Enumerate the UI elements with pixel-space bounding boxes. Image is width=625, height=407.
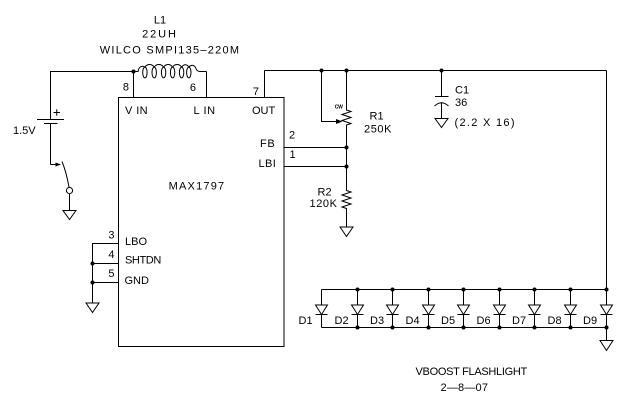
svg-text:R2: R2 xyxy=(318,187,332,199)
svg-text:LBI: LBI xyxy=(259,158,277,170)
svg-text:22UH: 22UH xyxy=(142,29,178,41)
wire pin 6 L IN xyxy=(206,72,208,98)
svg-text:5: 5 xyxy=(108,268,114,280)
svg-text:D8: D8 xyxy=(548,315,562,327)
resistor R2 xyxy=(342,167,351,228)
junction dot C1 top xyxy=(440,69,444,73)
svg-text:D5: D5 xyxy=(441,315,455,327)
ground under R2 xyxy=(340,227,353,237)
junction dot R1 top xyxy=(345,69,349,73)
op-amp U1 MAX1797 IC body xyxy=(119,98,285,347)
switch S1 xyxy=(51,162,73,194)
svg-text:36: 36 xyxy=(455,97,467,109)
svg-text:OUT: OUT xyxy=(252,105,276,117)
diode D5 xyxy=(458,288,470,330)
wiper arrowhead xyxy=(336,119,343,124)
wire LED bottom bus xyxy=(322,327,607,329)
wire pin 5 GND xyxy=(93,282,119,284)
wire pin 8 V IN xyxy=(133,72,135,98)
wire FB pin 2 xyxy=(284,147,347,149)
wire pin5 node to ground xyxy=(92,283,94,304)
junction dot wiper feed xyxy=(320,69,324,73)
junction dot pin5 node xyxy=(91,281,95,285)
svg-text:CW: CW xyxy=(335,105,343,111)
ground under C1 xyxy=(435,119,448,128)
inductor L1 xyxy=(134,65,207,78)
svg-text:D2: D2 xyxy=(335,315,349,327)
junction dot LBI node xyxy=(345,165,349,169)
wire pin 4 SHTDN xyxy=(93,263,119,265)
wire switch to ground xyxy=(69,194,71,211)
svg-text:1: 1 xyxy=(290,149,296,161)
svg-text:D4: D4 xyxy=(406,315,420,327)
svg-text:4: 4 xyxy=(108,249,114,261)
svg-text:L IN: L IN xyxy=(194,105,216,117)
svg-text:LBO: LBO xyxy=(125,236,147,248)
svg-text:1.5V: 1.5V xyxy=(13,125,36,137)
svg-text:V IN: V IN xyxy=(125,105,148,117)
resistor R1 potentiometer body xyxy=(342,71,351,148)
wire rail right side down to LED bus xyxy=(606,71,608,290)
svg-text:C1: C1 xyxy=(455,85,469,97)
capacitor C1 xyxy=(435,71,449,119)
wire LED bus to ground xyxy=(606,328,608,341)
diode D2 xyxy=(352,288,364,330)
svg-text:3: 3 xyxy=(108,230,114,242)
wire pin bus 4 to 5 xyxy=(92,264,94,283)
wire FB node to LBI node xyxy=(346,148,348,167)
junction dot FB node xyxy=(345,146,349,150)
wire battery positive to node VIN xyxy=(51,72,134,120)
wire pin 3 LBO xyxy=(93,244,119,264)
svg-text:120K: 120K xyxy=(310,198,338,210)
wire battery negative to switch xyxy=(50,124,52,165)
diode D7 xyxy=(529,288,541,330)
wire LBI pin 1 xyxy=(284,166,347,168)
svg-text:(2.2 X 16): (2.2 X 16) xyxy=(455,117,516,129)
ground under pins xyxy=(86,303,99,313)
svg-text:WILCO SMPI135–220M: WILCO SMPI135–220M xyxy=(100,45,241,57)
wire LED top bus xyxy=(322,289,607,291)
diode D6 xyxy=(494,288,506,330)
wire pin 7 OUT xyxy=(264,71,266,98)
svg-text:7: 7 xyxy=(253,86,259,98)
svg-text:2—8—07: 2—8—07 xyxy=(441,382,489,394)
diode D3 xyxy=(387,288,399,330)
diode D4 xyxy=(423,288,435,330)
ground under switch xyxy=(63,211,76,220)
svg-text:L1: L1 xyxy=(154,15,166,27)
svg-text:R1: R1 xyxy=(370,111,384,123)
diode D8 xyxy=(565,288,577,330)
svg-text:D1: D1 xyxy=(299,315,313,327)
svg-text:MAX1797: MAX1797 xyxy=(169,181,226,193)
svg-text:D9: D9 xyxy=(583,315,597,327)
svg-text:SHTDN: SHTDN xyxy=(125,255,161,267)
wire OUT rail xyxy=(265,70,607,72)
battery plus sign xyxy=(54,109,61,115)
svg-text:FB: FB xyxy=(260,138,275,150)
diode D1 xyxy=(316,290,328,328)
wire wiper feed xyxy=(322,71,337,122)
svg-text:D7: D7 xyxy=(512,315,526,327)
junction dot node VIN xyxy=(132,70,136,74)
ground under LED bus xyxy=(600,341,613,351)
svg-text:GND: GND xyxy=(125,275,150,287)
svg-text:D3: D3 xyxy=(370,315,384,327)
svg-text:D6: D6 xyxy=(477,315,491,327)
junction dot pin4 node xyxy=(91,262,95,266)
battery BT1 xyxy=(37,120,64,124)
svg-text:2: 2 xyxy=(289,130,295,142)
svg-text:VBOOST FLASHLIGHT: VBOOST FLASHLIGHT xyxy=(416,366,528,378)
diode D9 xyxy=(601,288,613,330)
svg-text:250K: 250K xyxy=(364,124,392,136)
svg-text:8: 8 xyxy=(123,82,129,94)
svg-text:6: 6 xyxy=(190,82,196,94)
